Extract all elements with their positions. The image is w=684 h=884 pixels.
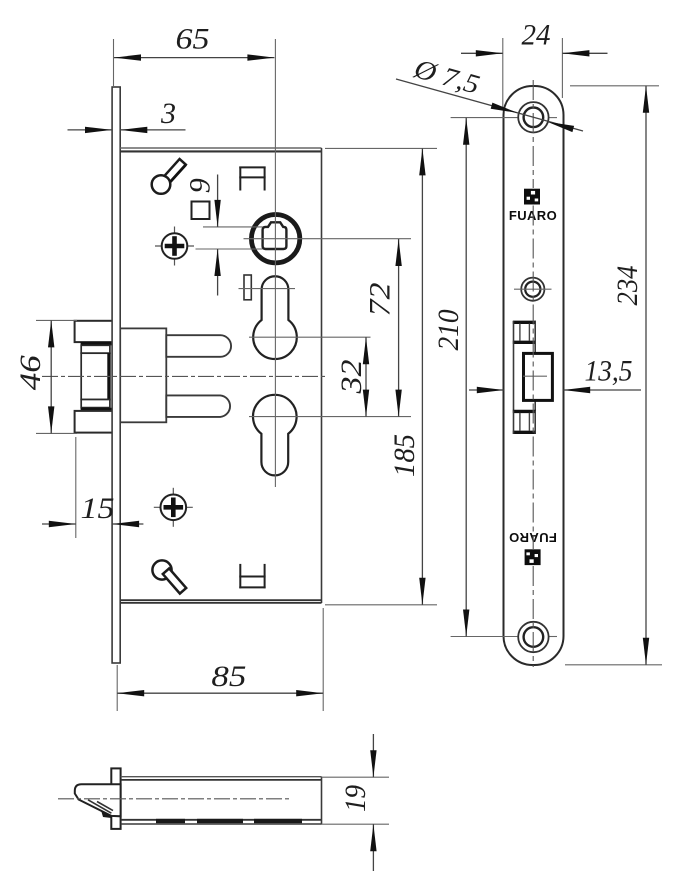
side view case right edge — [321, 777, 323, 824]
latch head upper step2 — [81, 345, 110, 353]
svg-text:32: 32 — [335, 360, 368, 395]
forend faceplate strip (left view) — [112, 87, 120, 663]
handle screw bottom — [154, 488, 193, 527]
lock case bottom edge lower — [120, 602, 321, 604]
faceplate vertical centerline lower — [532, 566, 534, 667]
key icon bottom circle — [152, 560, 171, 579]
latch horizontal centerline — [42, 375, 326, 377]
latch guide bottom thick bars — [513, 411, 536, 432]
dim 9 line — [217, 175, 219, 296]
side view cover dark segments — [156, 819, 302, 823]
dim 46 extensions — [36, 320, 77, 433]
dim 185 extensions — [325, 148, 437, 604]
dim 24 line — [461, 52, 608, 54]
follower top extension (9) — [203, 226, 263, 228]
dim 13.5 line — [469, 389, 641, 391]
follower bottom extension (9) — [196, 248, 263, 250]
latch opening sides middle — [514, 344, 536, 411]
dim 19 line — [372, 734, 374, 871]
dim 9 arrows — [214, 200, 220, 276]
dim 234 arrows — [643, 86, 649, 665]
svg-text:24: 24 — [522, 19, 551, 52]
dim 65 line — [114, 57, 274, 59]
euro cylinder hole upper — [253, 276, 297, 359]
dim 234 line — [645, 86, 647, 665]
latch head middle block — [81, 353, 110, 399]
lock case top edge thin — [120, 147, 321, 149]
dim 19 extensions — [322, 777, 390, 824]
dim 85 line — [117, 692, 323, 694]
front faceplate outline (right view) — [504, 86, 564, 665]
latch head bottom thick bar — [81, 408, 113, 411]
latch guide top thick bars — [513, 322, 536, 342]
latch head bottom step — [75, 411, 113, 433]
lock case right edge — [321, 148, 323, 603]
latch head top thick bar — [81, 342, 113, 345]
cylinder slot tick — [239, 288, 296, 290]
FUARO logo mark top — [524, 189, 540, 205]
key icon top rod — [162, 159, 186, 184]
side view latch bevel inner line — [88, 800, 111, 813]
latch fork bottom prong — [166, 395, 230, 417]
middle screw hole — [525, 282, 540, 297]
dim 19 arrows — [370, 750, 376, 851]
dim 24 extensions — [503, 38, 563, 110]
side view bevel dark wedge — [101, 810, 111, 818]
svg-text:234: 234 — [611, 266, 644, 306]
deadbolt indicator bracket top — [239, 167, 265, 191]
dim 234 extensions — [565, 86, 662, 665]
svg-text:185: 185 — [388, 434, 421, 477]
latch bolt front view — [524, 353, 553, 400]
key icon top rod tip shade — [170, 165, 185, 182]
dim 15 extension — [75, 437, 77, 538]
cylinder fixing screw slot — [244, 275, 251, 300]
FUARO logo mark bottom (rotated) — [525, 549, 541, 565]
dim 65 extension left — [113, 39, 115, 86]
side view faceplate section — [111, 768, 120, 829]
side view latch nose — [75, 784, 121, 816]
dim 15 arrows — [49, 521, 139, 527]
svg-text:72: 72 — [364, 283, 397, 317]
side view case top edges — [121, 777, 322, 780]
dia 7.5 leader arrows — [491, 103, 574, 133]
euro cylinder hole lower — [253, 395, 297, 476]
dim 3 line — [68, 129, 186, 131]
dim 32 line — [365, 337, 367, 416]
dim 46 line — [50, 320, 52, 433]
latch head top step — [75, 321, 113, 342]
latch center tick — [523, 375, 547, 377]
key icon top circle — [152, 175, 171, 194]
faceplate vertical centerline upper — [532, 80, 534, 188]
faceplate vertical centerline middle — [532, 206, 534, 550]
latch guide bottom sides — [514, 410, 536, 434]
dim 13.5 arrows — [477, 387, 590, 393]
dim 72 line — [398, 239, 400, 417]
dim 85 arrows — [117, 690, 323, 696]
dim 72 arrows — [395, 239, 401, 417]
top screw hole — [524, 108, 544, 128]
main vertical centerline (backset axis) — [274, 39, 276, 487]
key icon bottom rod — [163, 568, 186, 593]
latch fork top prong — [166, 335, 231, 357]
svg-text:19: 19 — [339, 785, 372, 812]
latch guide top sides — [514, 321, 536, 344]
svg-text:46: 46 — [14, 355, 47, 390]
spindle horizontal centerline / 72 extension — [244, 238, 412, 240]
latch head middle right thick edge — [107, 353, 110, 400]
svg-text:15: 15 — [81, 492, 115, 525]
dim 65 arrows — [114, 54, 274, 60]
bottom screw hole countersink — [518, 622, 548, 652]
lock case top edge thick — [120, 150, 321, 152]
dim 210 arrows — [463, 118, 469, 637]
latch guide top inner lines — [520, 324, 530, 342]
top screw hole countersink — [518, 102, 548, 132]
dia 7.5 leader line — [396, 79, 583, 131]
side view latch bevel second line — [97, 802, 113, 811]
svg-text:13,5: 13,5 — [585, 355, 633, 388]
dim 85 extensions — [117, 608, 323, 711]
spindle follower — [263, 222, 287, 249]
lock case bottom edge upper — [120, 599, 321, 601]
dim 3 arrows — [85, 127, 147, 133]
lower cylinder center extension — [249, 416, 411, 418]
deadbolt indicator bracket bottom — [239, 564, 265, 588]
svg-text:9: 9 — [184, 178, 217, 193]
dim 24 arrows — [476, 50, 590, 56]
svg-text:65: 65 — [176, 23, 210, 56]
upper cylinder center extension (32) — [249, 336, 371, 338]
latch guide bottom inner lines — [520, 413, 530, 431]
side view centerline — [58, 798, 292, 800]
dim 46 arrows — [48, 320, 54, 433]
middle screw hole countersink — [521, 278, 544, 301]
dim 185 arrows — [419, 148, 425, 604]
dim 15 line — [42, 523, 143, 525]
latch head lower step2 — [81, 400, 110, 408]
latch bolt body — [120, 328, 166, 422]
middle screw center tick — [514, 288, 552, 290]
bottom screw hole — [524, 627, 544, 647]
side view case bottom edges — [121, 820, 322, 824]
dim 210 extensions — [451, 118, 557, 637]
svg-text:210: 210 — [432, 310, 465, 351]
dim 210 line — [465, 118, 467, 637]
dim 185 line — [421, 148, 423, 604]
spindle hub ring — [251, 215, 299, 263]
follower square mark — [192, 202, 210, 220]
dim 32 arrows — [363, 337, 369, 416]
handle screw top — [155, 227, 194, 266]
svg-text:85: 85 — [211, 660, 246, 693]
svg-text:3: 3 — [160, 97, 176, 130]
